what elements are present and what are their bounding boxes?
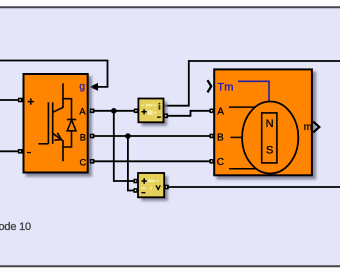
svg-text:B: B [80,132,86,142]
diode triangle [67,120,76,131]
bridge B port [90,134,95,139]
arrowhead into g port [89,83,98,91]
svg-text:C: C [217,157,224,168]
machine internal line B [231,136,243,138]
svg-text:C: C [80,157,87,167]
svg-text:m: m [304,122,312,133]
voltage block - port [133,188,138,193]
igbt emitter arrowhead [54,133,61,140]
svg-text:Tm: Tm [218,81,234,93]
igbt collector angle [53,83,63,112]
current measurement block body [138,99,163,123]
machine m output chevron [313,122,319,133]
svg-text:N: N [266,118,274,130]
igbt emitter angle [53,133,63,161]
wire into bridge - port [0,150,18,152]
bridge - port [18,149,23,154]
machine B port [210,134,215,139]
current block plus sign [142,109,147,114]
wire from current block - port to machine A [168,111,210,116]
window white band bottom [0,266,340,273]
voltage block v label [156,185,160,189]
machine internal line C [229,168,256,170]
port squares [18,98,214,193]
voltage block minus sign [141,192,145,193]
voltage block icon light marks [141,180,158,190]
bridge + port [18,98,23,103]
svg-text:A: A [217,107,224,118]
wire B: bridge B to machine B [93,135,210,137]
bridge label - [27,152,31,153]
node A junction dot [111,108,117,114]
bridge A port [90,109,95,114]
svg-text:A: A [79,106,86,116]
machine C port [210,159,215,164]
window white band top [0,0,340,7]
voltage measurement block body [138,173,164,197]
machine Tm internal signal line [238,81,269,102]
voltage block + port [133,179,138,184]
svg-text:ode 10: ode 10 [0,221,31,233]
svg-text:S: S [266,144,273,156]
igbt body bar [52,102,54,144]
igbt gate feed line [39,143,49,145]
PMSM machine block shadow [216,72,316,180]
current measurement block shadow [142,102,168,126]
current block minus sign [157,117,161,118]
node B junction dot [125,133,131,139]
current block i label [158,103,160,110]
current block icon light marks [142,104,156,115]
wire v output to right edge [168,186,340,188]
window border line bottom [0,265,340,267]
wire from A junction down to voltage + [114,111,134,181]
machine magnet rectangle [262,113,277,163]
wire A: bridge A to current block [93,110,135,112]
universal bridge U1 body [24,74,88,173]
voltage block plus sign [142,178,147,183]
voltage block out port [164,185,169,190]
wire g-loop horizontal top [0,61,108,87]
wire into bridge + port [0,99,18,101]
machine rotor ellipse [242,102,298,174]
machine internal line A [229,106,255,108]
current block - port [164,114,169,119]
machine Tm input chevron [208,80,212,92]
diode branch top [63,99,72,120]
wire C: bridge C to machine C [93,160,210,162]
universal bridge U1 shadow [26,76,92,177]
current block + port [134,109,139,114]
svg-text:B: B [217,133,224,144]
machine A port [210,109,215,114]
bridge label + [28,98,34,104]
svg-text:g: g [79,80,85,92]
diode cathode bar [67,119,76,121]
diode bottom lead [63,131,72,147]
window border line top [0,6,340,8]
wire from B junction down to voltage - [128,136,134,191]
igbt gate bar [47,102,49,144]
bridge C port [90,159,95,164]
voltage measurement block shadow [141,176,168,201]
PMSM machine block body [214,69,312,175]
wire from i output up and right to edge [164,61,340,106]
